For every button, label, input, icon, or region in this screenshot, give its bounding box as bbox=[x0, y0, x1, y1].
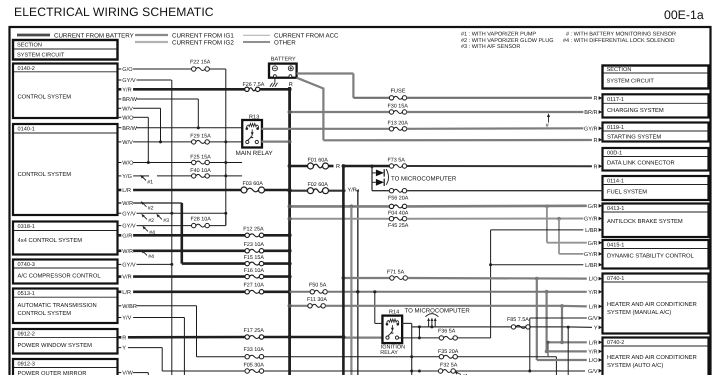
svg-text:L/BR: L/BR bbox=[585, 262, 597, 269]
svg-text:#1 : WITH VAPORIZER PUMP: #1 : WITH VAPORIZER PUMP bbox=[461, 31, 536, 37]
svg-text:# : WITH BATTERY MONITORING SE: # : WITH BATTERY MONITORING SENSOR bbox=[566, 31, 676, 37]
svg-text:0513-1: 0513-1 bbox=[18, 291, 35, 297]
svg-text:0119-1: 0119-1 bbox=[607, 125, 624, 131]
svg-text:Y: Y bbox=[122, 346, 126, 352]
svg-text:CURRENT FROM IG1: CURRENT FROM IG1 bbox=[172, 32, 234, 39]
svg-text:F04 40A: F04 40A bbox=[388, 211, 409, 217]
svg-text:GY/V: GY/V bbox=[122, 223, 136, 230]
svg-text:F29 15A: F29 15A bbox=[190, 133, 211, 139]
svg-text:0740-3: 0740-3 bbox=[18, 262, 35, 268]
svg-text:R: R bbox=[594, 96, 598, 102]
svg-text:F25 15A: F25 15A bbox=[190, 155, 211, 161]
svg-text:F11 30A: F11 30A bbox=[307, 297, 327, 303]
svg-text:F56 20A: F56 20A bbox=[388, 196, 409, 202]
svg-text:#1: #1 bbox=[147, 179, 153, 185]
svg-text:Y/R: Y/R bbox=[122, 86, 131, 93]
svg-text:0740-1: 0740-1 bbox=[607, 276, 624, 282]
svg-text:STARTING SYSTEM: STARTING SYSTEM bbox=[607, 134, 661, 141]
svg-text:#2: #2 bbox=[148, 206, 154, 212]
svg-text:GY/R: GY/R bbox=[584, 251, 598, 258]
svg-text:F71 5A: F71 5A bbox=[387, 270, 405, 276]
svg-text:CURRENT FROM BATTERY: CURRENT FROM BATTERY bbox=[54, 32, 134, 39]
svg-text:00E-1a: 00E-1a bbox=[664, 8, 704, 22]
svg-text:CONTROL SYSTEM: CONTROL SYSTEM bbox=[18, 171, 72, 178]
svg-text:SECTION: SECTION bbox=[607, 67, 632, 73]
svg-text:Y/R: Y/R bbox=[348, 186, 357, 193]
svg-text:F05 30A: F05 30A bbox=[244, 362, 265, 368]
svg-text:R: R bbox=[594, 164, 598, 170]
svg-text:OTHER: OTHER bbox=[274, 39, 296, 46]
svg-text:F12 25A: F12 25A bbox=[243, 227, 264, 233]
svg-text:W/V: W/V bbox=[122, 139, 133, 146]
svg-text:F03 60A: F03 60A bbox=[243, 181, 264, 187]
svg-text:G/V: G/V bbox=[588, 368, 598, 375]
svg-text:V/W: V/W bbox=[122, 370, 133, 375]
svg-text:#2 : WITH VAPORIZER GLOW PLUG: #2 : WITH VAPORIZER GLOW PLUG bbox=[461, 38, 554, 44]
svg-text:SYSTEM CIRCUIT: SYSTEM CIRCUIT bbox=[17, 52, 65, 58]
svg-text:G/R: G/R bbox=[588, 240, 598, 247]
svg-text:R: R bbox=[336, 164, 340, 170]
svg-text:CURRENT FROM IG2: CURRENT FROM IG2 bbox=[172, 39, 234, 46]
svg-text:Y: Y bbox=[594, 326, 598, 332]
svg-text:RELAY: RELAY bbox=[380, 350, 398, 356]
svg-text:CONTROL SYSTEM: CONTROL SYSTEM bbox=[18, 94, 72, 101]
svg-text:L/R: L/R bbox=[589, 304, 598, 311]
svg-text:W/V: W/V bbox=[122, 105, 133, 112]
svg-text:GY/V: GY/V bbox=[122, 210, 136, 217]
svg-text:F50 5A: F50 5A bbox=[309, 283, 327, 289]
svg-text:BR/R: BR/R bbox=[584, 109, 597, 116]
svg-text:SECTION: SECTION bbox=[17, 43, 42, 49]
svg-text:#3 : WITH A/F SENSOR: #3 : WITH A/F SENSOR bbox=[461, 44, 520, 50]
svg-text:R: R bbox=[594, 138, 598, 144]
svg-text:DYNAMIC STABILITY CONTROL: DYNAMIC STABILITY CONTROL bbox=[607, 253, 695, 260]
svg-text:F22 15A: F22 15A bbox=[190, 59, 211, 65]
svg-text:CONTROL SYSTEM: CONTROL SYSTEM bbox=[18, 310, 72, 317]
svg-text:HEATER AND AIR CONDITIONER: HEATER AND AIR CONDITIONER bbox=[607, 354, 697, 361]
svg-text:#3: #3 bbox=[163, 218, 169, 224]
svg-text:G/O: G/O bbox=[122, 66, 133, 73]
svg-text:FUSE: FUSE bbox=[391, 88, 406, 94]
svg-text:0140-1: 0140-1 bbox=[18, 127, 35, 133]
svg-text:0912-3: 0912-3 bbox=[18, 361, 35, 367]
svg-text:F02 60A: F02 60A bbox=[308, 182, 329, 188]
svg-text:#4: #4 bbox=[148, 254, 154, 260]
svg-text:G/V: G/V bbox=[588, 315, 598, 322]
svg-text:HEATER AND AIR CONDITIONER: HEATER AND AIR CONDITIONER bbox=[607, 301, 697, 308]
svg-text:V/R: V/R bbox=[122, 274, 131, 281]
svg-text:W/O: W/O bbox=[122, 160, 134, 167]
svg-text:W/R: W/R bbox=[122, 248, 133, 255]
svg-text:SYSTEM CIRCUIT: SYSTEM CIRCUIT bbox=[607, 79, 655, 85]
svg-text:F13 20A: F13 20A bbox=[388, 120, 409, 126]
svg-text:MAIN RELAY: MAIN RELAY bbox=[236, 150, 273, 157]
svg-text:L/R: L/R bbox=[122, 187, 131, 194]
svg-text:F45 25A: F45 25A bbox=[388, 223, 409, 229]
svg-text:POWER WINDOW SYSTEM: POWER WINDOW SYSTEM bbox=[18, 342, 93, 349]
svg-text:F35 20A: F35 20A bbox=[438, 349, 459, 355]
svg-text:L/O: L/O bbox=[589, 276, 599, 283]
svg-text:4x4 CONTROL SYSTEM: 4x4 CONTROL SYSTEM bbox=[18, 237, 83, 244]
svg-text:BR/W: BR/W bbox=[122, 125, 137, 132]
svg-text:#4 : WITH DIFFERENTIAL LOCK SO: #4 : WITH DIFFERENTIAL LOCK SOLENOID bbox=[563, 38, 675, 44]
svg-text:BR/W: BR/W bbox=[122, 96, 137, 103]
svg-text:F01 60A: F01 60A bbox=[308, 157, 329, 163]
svg-text:F73 5A: F73 5A bbox=[388, 157, 406, 163]
svg-text:W/R: W/R bbox=[122, 200, 133, 207]
svg-text:F85 7.5A: F85 7.5A bbox=[507, 317, 529, 323]
svg-text:0114-1: 0114-1 bbox=[607, 178, 624, 184]
svg-text:F40 10A: F40 10A bbox=[190, 168, 211, 174]
svg-text:0117-1: 0117-1 bbox=[607, 97, 624, 103]
svg-text:0318-1: 0318-1 bbox=[18, 224, 35, 230]
svg-text:0912-2: 0912-2 bbox=[18, 331, 35, 337]
svg-text:ANTILOCK BRAKE SYSTEM: ANTILOCK BRAKE SYSTEM bbox=[607, 218, 683, 225]
svg-text:GY/R: GY/R bbox=[584, 125, 598, 132]
svg-text:F36 5A: F36 5A bbox=[438, 328, 456, 334]
svg-text:L/BR: L/BR bbox=[585, 227, 597, 234]
svg-text:G/R: G/R bbox=[588, 203, 598, 210]
svg-text:F33 10A: F33 10A bbox=[244, 347, 265, 353]
svg-text:TO MICROCOMPUTER: TO MICROCOMPUTER bbox=[405, 308, 471, 315]
svg-text:Y/G: Y/G bbox=[122, 173, 132, 180]
svg-text:AUTOMATIC TRANSMISSION: AUTOMATIC TRANSMISSION bbox=[18, 302, 97, 309]
svg-text:F32 5A: F32 5A bbox=[440, 362, 458, 368]
svg-text:#2: #2 bbox=[148, 218, 154, 224]
svg-text:00D-1: 00D-1 bbox=[607, 150, 622, 156]
svg-text:GY/V: GY/V bbox=[122, 262, 136, 269]
svg-text:DATA LINK CONNECTOR: DATA LINK CONNECTOR bbox=[607, 160, 675, 167]
svg-text:SYSTEM (MANUAL A/C): SYSTEM (MANUAL A/C) bbox=[607, 309, 671, 316]
svg-text:F15 15A: F15 15A bbox=[244, 255, 265, 261]
svg-text:F28 10A: F28 10A bbox=[191, 216, 212, 222]
svg-text:F27 10A: F27 10A bbox=[244, 283, 265, 289]
svg-text:G/R: G/R bbox=[122, 232, 132, 239]
svg-text:A/C COMPRESSOR CONTROL: A/C COMPRESSOR CONTROL bbox=[18, 272, 102, 279]
svg-text:0140-2: 0140-2 bbox=[18, 66, 35, 72]
svg-text:0413-1: 0413-1 bbox=[607, 206, 624, 212]
svg-text:GY/R: GY/R bbox=[584, 216, 598, 223]
svg-text:W/O: W/O bbox=[122, 114, 134, 121]
svg-text:L/R: L/R bbox=[122, 289, 131, 296]
svg-text:0740-2: 0740-2 bbox=[607, 340, 624, 346]
svg-text:POWER OUTER MIRROR: POWER OUTER MIRROR bbox=[18, 370, 87, 375]
svg-text:F30 15A: F30 15A bbox=[388, 104, 409, 110]
svg-text:L/R: L/R bbox=[589, 339, 598, 346]
svg-text:F23 10A: F23 10A bbox=[244, 242, 265, 248]
svg-text:W/BR: W/BR bbox=[122, 303, 137, 310]
svg-text:CURRENT FROM ACC: CURRENT FROM ACC bbox=[274, 32, 339, 39]
svg-text:L/O: L/O bbox=[589, 357, 599, 364]
svg-text:R: R bbox=[122, 335, 126, 341]
svg-text:Y/V: Y/V bbox=[122, 315, 131, 322]
svg-text:FUEL SYSTEM: FUEL SYSTEM bbox=[607, 189, 647, 196]
svg-text:TO MICROCOMPUTER: TO MICROCOMPUTER bbox=[391, 175, 457, 182]
svg-text:Y/R: Y/R bbox=[588, 289, 597, 296]
svg-text:GY/V: GY/V bbox=[122, 77, 136, 84]
svg-text:SYSTEM (AUTO A/C): SYSTEM (AUTO A/C) bbox=[607, 362, 663, 369]
svg-text:0415-1: 0415-1 bbox=[607, 242, 624, 248]
svg-text:BATTERY: BATTERY bbox=[271, 56, 296, 62]
svg-text:ELECTRICAL WIRING SCHEMATIC: ELECTRICAL WIRING SCHEMATIC bbox=[14, 5, 214, 19]
svg-text:F16 10A: F16 10A bbox=[244, 268, 265, 274]
svg-text:F17 25A: F17 25A bbox=[244, 328, 265, 334]
svg-text:CHARGING SYSTEM: CHARGING SYSTEM bbox=[607, 107, 664, 114]
svg-text:Y/R: Y/R bbox=[588, 349, 597, 356]
